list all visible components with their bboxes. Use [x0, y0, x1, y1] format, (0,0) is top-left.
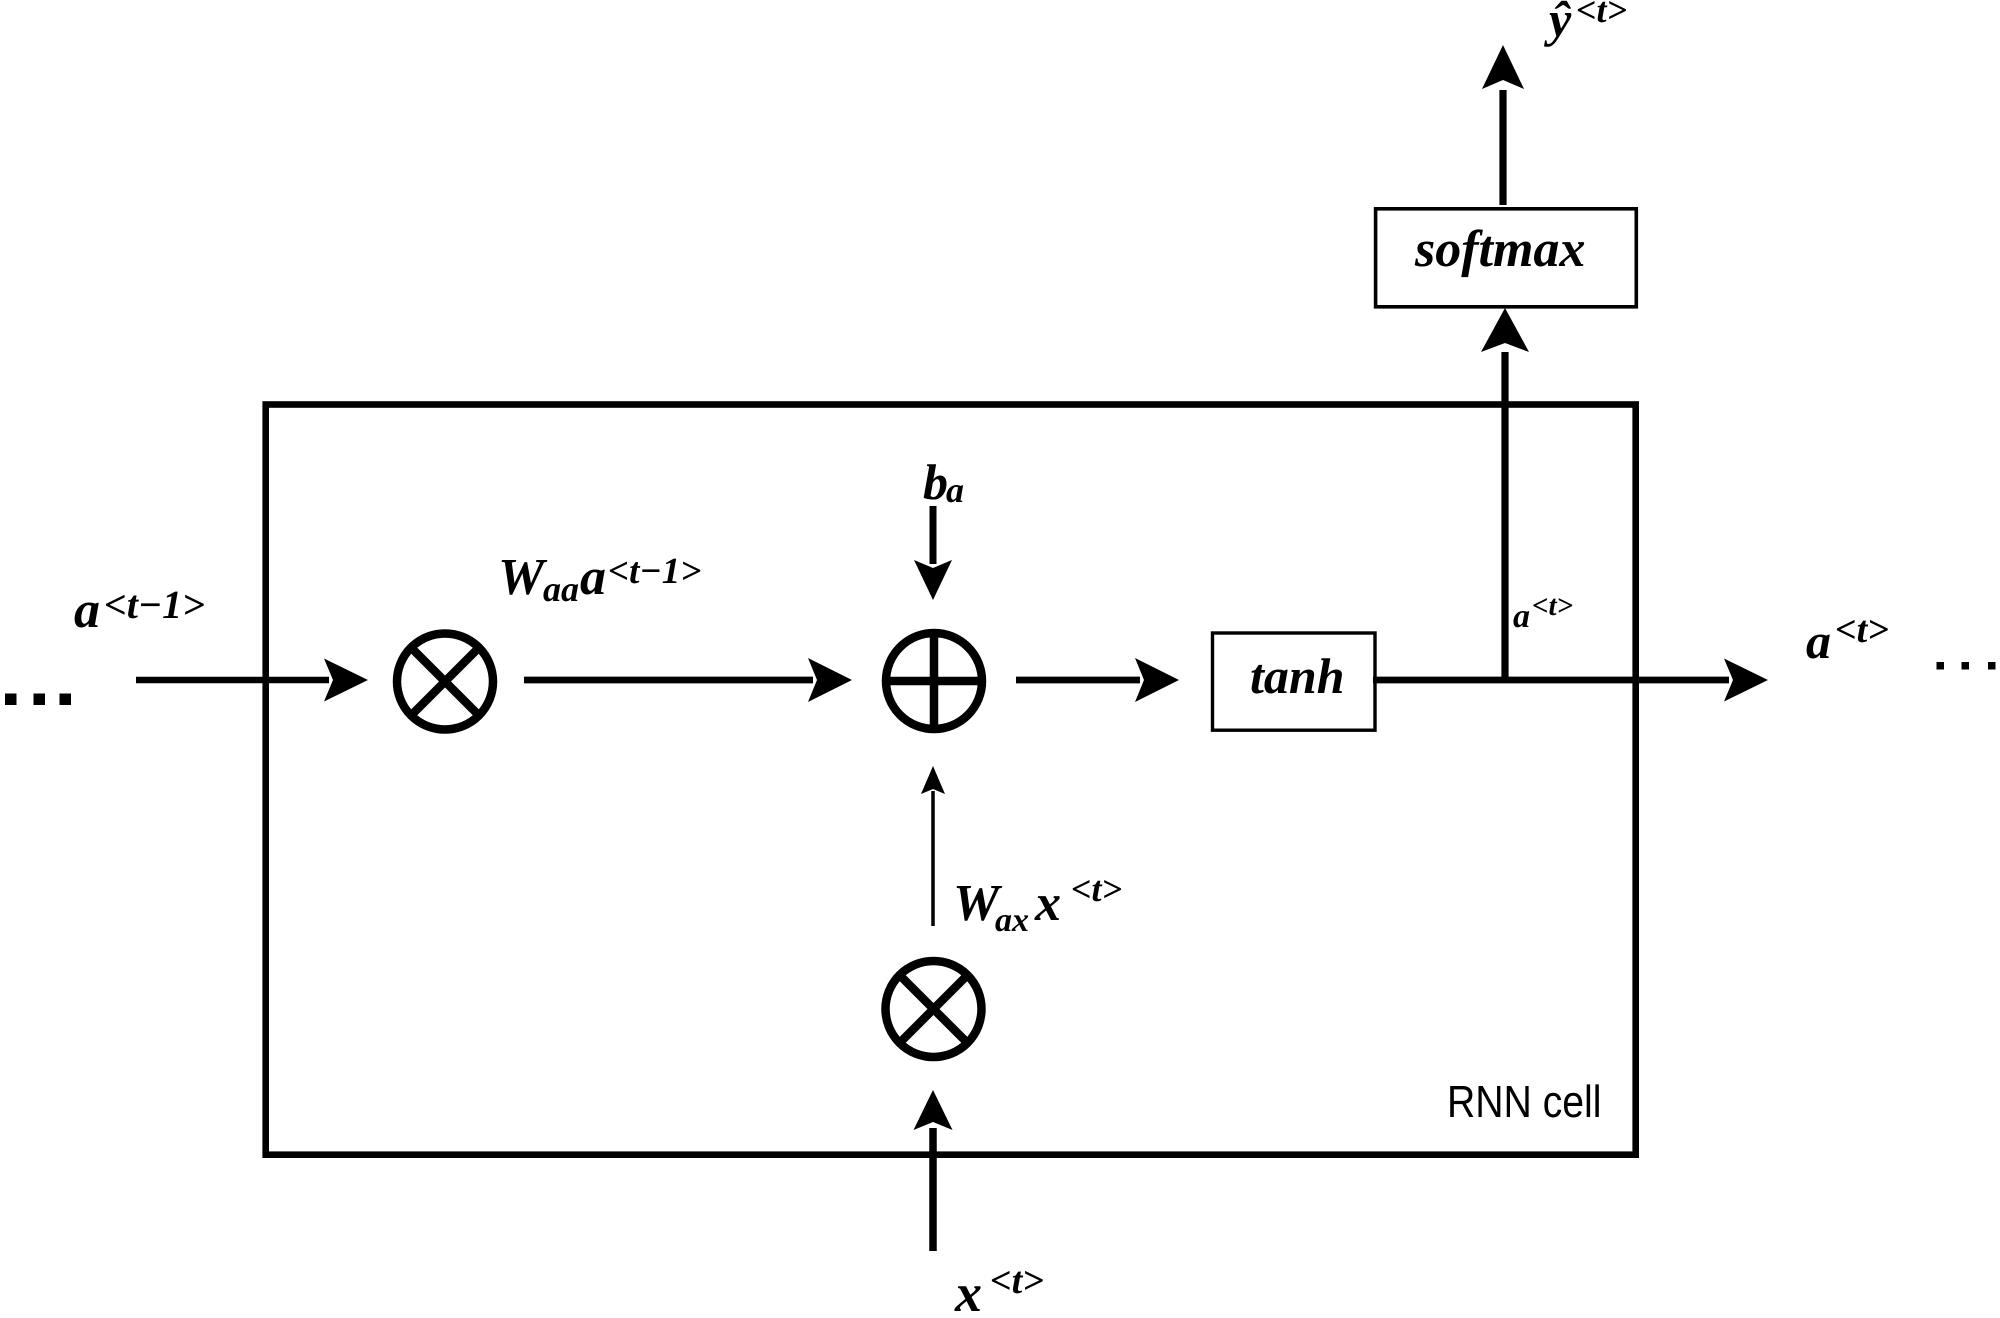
RNN cell box	[266, 405, 1636, 1155]
label Waa a^(t-1)	[502, 559, 701, 602]
softmax box	[1376, 209, 1637, 307]
node dots right	[1937, 662, 1996, 670]
label Wax x^(t)	[957, 880, 1121, 931]
wire X2 up to plus thin arrow	[921, 766, 945, 926]
wire bottom input arrow	[914, 1090, 953, 1251]
wire tanh to right output arrow	[1373, 659, 1768, 702]
node A label a^(t-1) left input	[75, 592, 204, 628]
wire left input arrow	[136, 659, 368, 702]
multiplier node X1 (Waa)	[397, 634, 493, 730]
label small a^(t) on branch	[1513, 598, 1572, 627]
wire softmax up arrow	[1482, 45, 1524, 205]
tanh box	[1213, 633, 1376, 730]
node x^(t) input label	[954, 1271, 1042, 1311]
wire b_a down arrow	[914, 506, 952, 600]
adder node plus	[886, 633, 982, 729]
RNN cell label	[1450, 1084, 1599, 1117]
node a^(t) right output label	[1807, 620, 1888, 659]
wire vertical branch to softmax	[1481, 308, 1529, 680]
label b_a	[924, 464, 963, 502]
node dots left	[5, 694, 71, 706]
multiplier node X2 (Wax)	[886, 961, 982, 1057]
wire X1 to plus	[524, 658, 852, 702]
wire plus to tanh	[1016, 658, 1179, 702]
node yhat^(t) output label	[1544, 1, 1626, 47]
